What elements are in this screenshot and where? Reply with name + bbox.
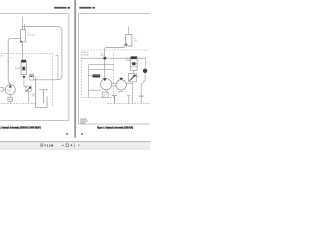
wire pump to filter F1 [9, 95, 11, 98]
svg-text:24L: 24L [0, 56, 3, 58]
valve V1 element [22, 67, 25, 70]
pump P2 triangle [119, 78, 123, 81]
gauge G1 cropped at left edge [0, 87, 3, 91]
riser above cylinder B [128, 26, 130, 34]
svg-text:0400: 0400 [134, 40, 138, 42]
valve V2 body [131, 57, 137, 71]
cylinder B2 port mark [125, 44, 127, 46]
title block notes [80, 119, 87, 120]
filter F2 filled [93, 74, 101, 77]
wire motor to filter F3 [105, 90, 107, 92]
wire valve to relief valve RV1 [24, 79, 26, 87]
wire pilot to tank line [126, 82, 132, 104]
cylinder A1 [21, 30, 26, 42]
svg-text:Figure 1: Hydraulic Schematic: Figure 1: Hydraulic Schematic (DRIVEN) [97, 127, 133, 130]
tank T1 walls [36, 77, 47, 107]
header text ATTACHMENT B [79, 7, 91, 9]
drawing frame right page [79, 14, 154, 124]
valve V1 spring [16, 67, 21, 70]
pump P2 circle [116, 80, 126, 90]
valve V1 body [21, 62, 26, 74]
wire header lines [89, 65, 114, 70]
valve V1 cap [21, 60, 26, 63]
svg-text:CYL 0400: CYL 0400 [27, 35, 35, 37]
wire cylinder to valve V1 [22, 42, 24, 60]
toolbar zoom minus [62, 144, 64, 146]
page divider line [74, 0, 76, 137]
valve V1 outlet triangle [22, 76, 25, 79]
wire riser above cylinder [22, 17, 24, 30]
wire filter line [89, 75, 102, 77]
wire loop left [8, 38, 20, 85]
svg-text:gure 1: Hydraulic Schematic (D: gure 1: Hydraulic Schematic (DRIVEN COMP… [0, 127, 41, 130]
wire dashes at check valve outlet [34, 75, 40, 77]
wire F3 to tank [104, 97, 106, 99]
svg-text:HPU 02: HPU 02 [82, 52, 88, 54]
supply line across [81, 57, 130, 59]
tank T2 tee [112, 96, 117, 104]
pump P2 label [118, 91, 123, 93]
relief valve RV1 arrow [27, 87, 31, 91]
shaft coupling [112, 84, 116, 86]
valve V2 element [132, 62, 135, 65]
right page number [81, 133, 83, 134]
wire RV1 to tank line [28, 92, 30, 104]
toolbar zoom plus [70, 144, 72, 146]
cylinder B2 [126, 35, 132, 46]
svg-text:P1: P1 [10, 58, 12, 60]
svg-text:N407: N407 [7, 90, 11, 92]
tank T1 breather tee [39, 90, 48, 104]
pump P1 [5, 85, 15, 95]
svg-text:P 210: P 210 [100, 53, 104, 55]
check valve B1 mark [30, 75, 33, 77]
node junction on left wire [8, 61, 9, 62]
tank tee T3 [139, 95, 144, 97]
wire junction down to pump [104, 59, 106, 78]
wire inner branch [56, 55, 58, 79]
wire loop top and right [23, 27, 62, 80]
check valve box B1 [29, 74, 34, 80]
motor M1 triangle [103, 78, 107, 81]
wire valve bottom to pilot [133, 70, 135, 73]
toolbar icon dot [44, 145, 45, 146]
toolbar icon thumbnails [41, 144, 43, 146]
valve V2 solenoid [127, 58, 130, 61]
wire suction drop [88, 65, 90, 98]
svg-text:LT-9: LT-9 [134, 38, 137, 40]
cylinder A1 port mark [20, 41, 22, 43]
pump P1 triangle [9, 85, 12, 88]
wire filter to tank line [9, 101, 11, 103]
enclosure dashed box right page [81, 50, 152, 98]
wire motor bottom port [89, 89, 101, 91]
filter F1 [8, 97, 13, 101]
pilot valve PV1 [129, 73, 137, 81]
drawing frame left page [0, 14, 69, 121]
wire accumulator to tank tee [141, 73, 145, 103]
tank drop line [127, 96, 130, 104]
toolbar extra mark [78, 145, 80, 146]
motor M1 circle [101, 79, 112, 90]
accumulator AC1 [143, 69, 147, 73]
valve V2 cap [131, 57, 137, 60]
pilot valve PV1 arrow [130, 75, 136, 81]
svg-text:SET: SET [32, 95, 35, 97]
orifice plug junction [104, 57, 107, 60]
toolbar background [0, 142, 150, 150]
filter F3 [102, 92, 108, 98]
toolbar separator [74, 143, 76, 147]
left page number [66, 133, 68, 134]
wire cylinder B2 to pump line [105, 44, 126, 57]
relief valve RV1 [26, 86, 31, 92]
tank return dashed line [107, 103, 152, 105]
header text ATTACHMENT A [54, 7, 66, 9]
toolbar top border [0, 141, 150, 143]
enclosure dashed box left page [0, 54, 52, 108]
wire gauge to pump [3, 88, 5, 90]
toolbar zoom box [66, 144, 69, 147]
svg-text:1 / 14: 1 / 14 [47, 145, 54, 148]
wire valve right to accumulator [137, 58, 146, 68]
